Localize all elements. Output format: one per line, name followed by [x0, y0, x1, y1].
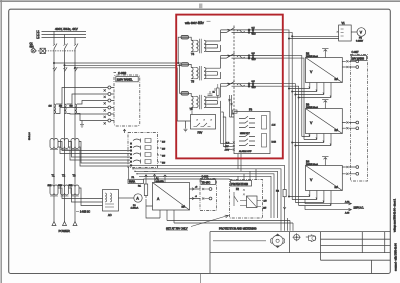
plug phase B — [63, 222, 67, 226]
label 400V 50Hz 3PH — [55, 27, 78, 31]
wire F3 feed b — [221, 112, 233, 149]
fuse F5 — [181, 63, 189, 67]
wire row2 lines — [221, 56, 284, 59]
wire T6 feed riser — [179, 65, 181, 94]
resistor R1 — [138, 172, 148, 199]
wire row3 to risers — [283, 84, 299, 206]
svg-text:SET AT 75V ONLY: SET AT 75V ONLY — [166, 226, 188, 230]
svg-text:1-01B 2C: 1-01B 2C — [80, 210, 90, 213]
capacitor C1 — [208, 88, 216, 96]
label with 400V 415V — [185, 21, 211, 25]
breaker pole L3 — [74, 38, 78, 54]
plug phase C — [73, 222, 77, 226]
wire feed third to F3V — [74, 67, 185, 121]
wire T2 sec taps — [69, 142, 131, 161]
svg-text:C-062: C-062 — [118, 71, 127, 75]
TITLE BLOCK — [210, 232, 390, 274]
CT 1M phase A — [49, 104, 56, 114]
datum target symbol — [293, 233, 301, 241]
wire phase A vertical — [53, 53, 55, 222]
wire A1 feed — [146, 199, 293, 223]
breaker Q1 — [30, 43, 46, 54]
label T1 — [52, 174, 56, 178]
transformer T2 secondary winding — [58, 185, 69, 196]
wire B3 inputs — [292, 134, 332, 147]
wire feed to T5/T6 — [64, 65, 181, 66]
wire CT secondary B — [67, 94, 108, 104]
switch contact row1 — [227, 28, 245, 33]
projection symbol — [271, 234, 285, 248]
svg-text:AC: AC — [108, 213, 112, 217]
wire row1 to risers — [283, 30, 292, 200]
svg-text:ALARM OFF: ALARM OFF — [239, 150, 252, 153]
svg-text:-9: -9 — [195, 196, 198, 198]
wire bundle risers at F2 — [238, 169, 256, 180]
ammeter P1 — [131, 194, 143, 210]
wire T1 sec taps — [58, 142, 130, 154]
svg-text:-2/9: -2/9 — [263, 208, 268, 210]
svg-text:TB 4/5C: TB 4/5C — [202, 183, 211, 185]
wire CT secondary A — [56, 88, 108, 105]
terminal column TB2 — [130, 143, 132, 167]
wire bus L2 — [42, 34, 87, 36]
fuse F4 — [181, 35, 189, 39]
svg-text:with 400V 415V: with 400V 415V — [185, 21, 204, 25]
node L3 — [37, 36, 40, 40]
svg-text:5/9: 5/9 — [162, 162, 166, 164]
enclosure C-007 — [351, 50, 368, 181]
CT 2M phase B — [59, 104, 66, 114]
svg-text:MERV FLT: MERV FLT — [240, 133, 250, 135]
resistor R2 — [276, 182, 286, 210]
margin text right mid — [394, 198, 397, 232]
title block outline — [210, 232, 390, 274]
svg-text:L3: L3 — [37, 36, 40, 40]
svg-text:F3V: F3V — [198, 131, 203, 135]
wire B2 inputs — [288, 83, 331, 99]
transformer T4 — [189, 37, 206, 56]
scan edge top — [0, 0, 400, 2]
wire bundle horizontals — [131, 165, 285, 230]
switch contact row3 — [227, 81, 245, 86]
svg-text:F2: F2 — [236, 188, 239, 191]
svg-text:POWER: POWER — [59, 229, 71, 233]
svg-text:+9: +9 — [195, 187, 198, 189]
svg-text:1/9: 1/9 — [264, 200, 268, 202]
svg-text:T5: T5 — [191, 79, 195, 83]
signature line — [213, 240, 266, 242]
wire CT return A — [56, 108, 108, 114]
ground F3V — [184, 121, 191, 132]
svg-text:F1: F1 — [132, 177, 135, 179]
svg-text:V: V — [310, 70, 313, 74]
contact K1 phase C — [74, 67, 78, 71]
switch F3V — [191, 109, 216, 135]
transformer T2 primary — [61, 139, 69, 150]
wire B3 outputs — [342, 121, 358, 129]
wire V1 feeds — [288, 36, 338, 40]
terminal strip TB1 (C-062 inputs) — [104, 86, 115, 125]
svg-text:DAB: DAB — [272, 140, 277, 143]
contact K1 phase B — [63, 67, 67, 71]
svg-text:A-06: A-06 — [345, 201, 350, 204]
transformer T6 — [189, 93, 206, 111]
wire risers to title — [285, 191, 298, 231]
transformer T3 secondary winding — [69, 185, 80, 196]
svg-text:1M: 1M — [49, 106, 52, 108]
wire A1 outputs — [190, 187, 201, 200]
node L2 — [37, 33, 40, 37]
svg-text:63A: 63A — [30, 45, 35, 48]
svg-text:2/9: 2/9 — [162, 148, 166, 150]
wire T3 sec taps — [79, 142, 130, 167]
fuse terminals row1 — [248, 27, 256, 35]
svg-text:0.5: 0.5 — [252, 81, 256, 83]
ground CT common — [80, 121, 84, 128]
svg-text:T3: T3 — [73, 174, 77, 178]
node L1 — [37, 29, 40, 33]
enclosure C-080 — [200, 176, 217, 211]
svg-text:R1: R1 — [138, 186, 142, 188]
contact K1 phase A — [53, 67, 57, 71]
svg-text:V: V — [360, 31, 363, 35]
voltmeter P2 — [356, 28, 366, 43]
plug phase A — [52, 222, 56, 226]
wire bus L3 — [42, 37, 87, 39]
label T2 — [62, 174, 66, 178]
terminal F3 inputs — [225, 142, 235, 152]
CT 3M phase C — [70, 104, 77, 114]
svg-text:P2: P2 — [359, 38, 362, 40]
enclosure C-062 — [114, 71, 140, 126]
svg-text:T2: T2 — [62, 174, 66, 178]
wire CT return B — [67, 113, 108, 116]
label 1-01B 2C — [76, 210, 90, 213]
highlight red box — [176, 15, 283, 159]
wire F3 feed a — [221, 108, 233, 144]
resistor R3 — [217, 84, 220, 100]
breaker pole L1 — [53, 31, 57, 53]
transformer T3 primary — [71, 139, 79, 150]
rectifier AC box — [103, 190, 119, 218]
svg-text:B3: B3 — [306, 103, 310, 107]
svg-text:0.5: 0.5 — [252, 27, 256, 29]
svg-text:P1: P1 — [133, 205, 136, 207]
wire T4 taps to bus — [206, 30, 221, 52]
wire bus L1 — [42, 30, 87, 32]
wire row1 lines — [221, 30, 284, 33]
wire T6 taps to bus — [206, 84, 221, 108]
breaker pole L2 — [64, 35, 68, 54]
svg-text:F3: F3 — [249, 108, 253, 112]
label contacts 1/9 2/9 — [263, 200, 268, 209]
wire row2 to risers — [283, 56, 304, 140]
wire F3 to bundle — [238, 154, 241, 172]
drive B3 — [306, 99, 343, 133]
transformer T5 — [189, 64, 206, 83]
svg-text:3/9: 3/9 — [162, 155, 166, 157]
actuator dashed link — [233, 26, 235, 111]
svg-text:A: A — [157, 197, 160, 201]
wire phase C vertical — [74, 53, 76, 222]
svg-text:mA: mA — [335, 129, 339, 132]
svg-text:mA: mA — [335, 78, 339, 81]
wire T5 taps to bus — [206, 56, 221, 79]
svg-text:T1: T1 — [52, 174, 56, 178]
svg-text:A-06: A-06 — [345, 211, 350, 214]
svg-text:V: V — [310, 121, 313, 125]
svg-text:4-M: 4-M — [272, 124, 276, 126]
svg-text:V1: V1 — [342, 21, 346, 25]
wire B4 inputs — [288, 191, 331, 206]
fuse terminals row2 — [248, 53, 256, 61]
wire B2 outputs — [342, 60, 358, 69]
svg-text:50/5A: 50/5A — [129, 181, 135, 184]
svg-text:1n: 1n — [213, 92, 215, 94]
wire CT secondary C — [77, 101, 108, 105]
wire T4 feed riser — [178, 37, 182, 64]
svg-text:1/9: 1/9 — [162, 141, 166, 143]
svg-text:28V MAINS: 28V MAINS — [352, 58, 364, 61]
svg-text:220V PANEL: 220V PANEL — [117, 78, 133, 82]
label left margin small — [29, 132, 31, 140]
svg-text:C-007: C-007 — [352, 50, 360, 54]
svg-text:mA: mA — [335, 186, 339, 189]
fold mark top — [199, 4, 202, 10]
wire secondaries to AC box — [58, 188, 103, 206]
fuse F1 — [128, 168, 144, 184]
label T3 — [73, 174, 77, 178]
wire row3 lines — [221, 84, 284, 87]
fold mark bottom — [200, 274, 202, 283]
wire T6 to F3 — [228, 95, 234, 117]
svg-text:W.C: W.C — [252, 59, 257, 61]
drive B2 — [306, 48, 343, 82]
svg-text:A: A — [136, 197, 139, 201]
fuse F6 — [181, 92, 189, 96]
fuse terminals row3 — [248, 81, 256, 89]
voltage transducer V1 — [337, 21, 357, 41]
svg-text:B4: B4 — [306, 160, 310, 164]
svg-text:220V A.C.: 220V A.C. — [354, 206, 365, 209]
label POWER — [59, 229, 71, 233]
svg-text:B2: B2 — [306, 52, 310, 56]
svg-text:0-10kV: 0-10kV — [356, 40, 363, 42]
label PROTECTION AND METERING — [219, 226, 256, 230]
svg-text:T4: T4 — [191, 52, 195, 56]
wire B4 outputs — [342, 166, 358, 176]
label SET AT 75V ONLY — [166, 226, 188, 230]
relay box F3 — [233, 108, 277, 154]
drive B4 — [306, 156, 343, 190]
svg-text:4-20mA: 4-20mA — [131, 207, 139, 210]
wire phase B vertical — [64, 53, 66, 222]
svg-text:voltage mod 590-01-04 - shee: voltage mod 590-01-04 - sheet 1 — [394, 198, 397, 232]
breaker link dashed — [45, 50, 76, 52]
svg-text:W.C: W.C — [252, 87, 257, 89]
margin text right lower — [394, 243, 397, 271]
svg-text:scanned - with DWG-01-04: scanned - with DWG-01-04 — [394, 243, 397, 271]
svg-text:30-5-1-0: 30-5-1-0 — [29, 132, 31, 140]
wire feed to T4/T5 — [53, 62, 181, 63]
relay block K1 — [123, 129, 166, 167]
switch contact row2 — [227, 53, 245, 58]
svg-text:PROTECTIONS: PROTECTIONS — [231, 184, 248, 186]
svg-text:0.5: 0.5 — [252, 53, 256, 55]
arrow SET AT — [191, 215, 228, 226]
protection box F2 — [230, 180, 263, 219]
counterbore symbol — [306, 235, 316, 242]
scan edge left — [0, 0, 2, 283]
transformer T1 secondary winding — [48, 185, 59, 196]
wire AC to ammeter — [119, 197, 135, 199]
svg-text:A1: A1 — [156, 176, 160, 180]
svg-text:PROTECTION AND METERING: PROTECTION AND METERING — [219, 226, 256, 230]
svg-text:W.C: W.C — [252, 33, 257, 35]
wire CT return C — [77, 114, 108, 121]
svg-text:mA: mA — [182, 205, 186, 208]
transformer T1 primary — [50, 139, 58, 150]
svg-text:400V, 50Hz, 4KV: 400V, 50Hz, 4KV — [55, 27, 78, 31]
svg-text:+60V: +60V — [225, 150, 230, 152]
wire 220VAC arrows — [305, 177, 364, 214]
svg-text:V: V — [310, 178, 313, 182]
drive A1 — [153, 172, 190, 211]
